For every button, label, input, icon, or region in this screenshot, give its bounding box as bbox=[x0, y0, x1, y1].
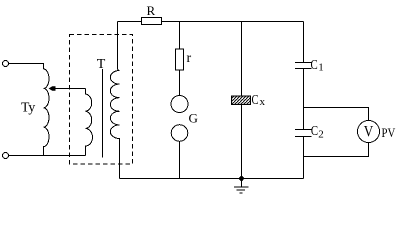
wire (tap line to transformer primary) bbox=[55, 88, 86, 90]
transformer T secondary winding bbox=[110, 22, 119, 179]
tap arrow into Ty bbox=[49, 86, 56, 90]
voltmeter PV bbox=[358, 121, 380, 143]
resistor r bbox=[176, 49, 184, 70]
sphere gap G lower sphere bbox=[171, 125, 188, 142]
svg-text:R: R bbox=[147, 3, 156, 18]
resistor R bbox=[142, 18, 162, 25]
wire (bottom rail left: terminal to transformer primary) bbox=[9, 155, 86, 157]
test object Cx (hatched block) bbox=[232, 96, 251, 105]
svg-text:Ty: Ty bbox=[21, 100, 35, 115]
sphere gap G upper sphere bbox=[171, 96, 188, 113]
junction dot bbox=[239, 176, 244, 181]
wire (Cx branch from top rail) bbox=[241, 22, 243, 97]
svg-text:PV: PV bbox=[382, 125, 396, 140]
wire (sphere gap to bottom rail) bbox=[179, 141, 181, 178]
wire (right branch from top rail to C1) bbox=[303, 22, 305, 63]
svg-text:C: C bbox=[311, 58, 318, 73]
terminal (bottom-left input) bbox=[3, 153, 9, 159]
wire (C1 to C2 with PV tap) bbox=[303, 69, 305, 130]
wire (PV bottom lead) bbox=[304, 143, 369, 157]
transformer core bbox=[102, 69, 104, 158]
autotransformer Ty coil bbox=[44, 69, 50, 156]
svg-text:1: 1 bbox=[318, 62, 324, 74]
svg-text:G: G bbox=[189, 111, 198, 126]
svg-text:r: r bbox=[187, 51, 192, 66]
wire (top rail left segment) bbox=[118, 21, 142, 23]
wire (bottom rail) bbox=[120, 178, 304, 180]
wire (r branch from top rail) bbox=[179, 22, 181, 50]
svg-text:2: 2 bbox=[318, 129, 324, 141]
wire (r to sphere gap) bbox=[179, 70, 181, 96]
svg-text:V: V bbox=[364, 124, 374, 141]
transformer T primary winding bbox=[86, 89, 93, 156]
svg-text:T: T bbox=[97, 57, 106, 72]
capacitor C2 bbox=[295, 130, 312, 137]
svg-text:C: C bbox=[311, 124, 318, 139]
terminal (top-left input) bbox=[3, 61, 9, 67]
svg-text:x: x bbox=[260, 96, 266, 108]
svg-text:C: C bbox=[252, 93, 259, 108]
wire (PV top lead) bbox=[304, 108, 369, 121]
wire (C2 to bottom rail) bbox=[303, 137, 305, 179]
ground bbox=[234, 179, 249, 194]
dashed enclosure box bbox=[70, 35, 133, 165]
wire (Cx to bottom rail) bbox=[241, 105, 243, 179]
capacitor C1 bbox=[295, 63, 312, 69]
wire (top terminal to Ty coil) bbox=[9, 64, 44, 70]
wire (top rail right segment) bbox=[162, 21, 304, 23]
